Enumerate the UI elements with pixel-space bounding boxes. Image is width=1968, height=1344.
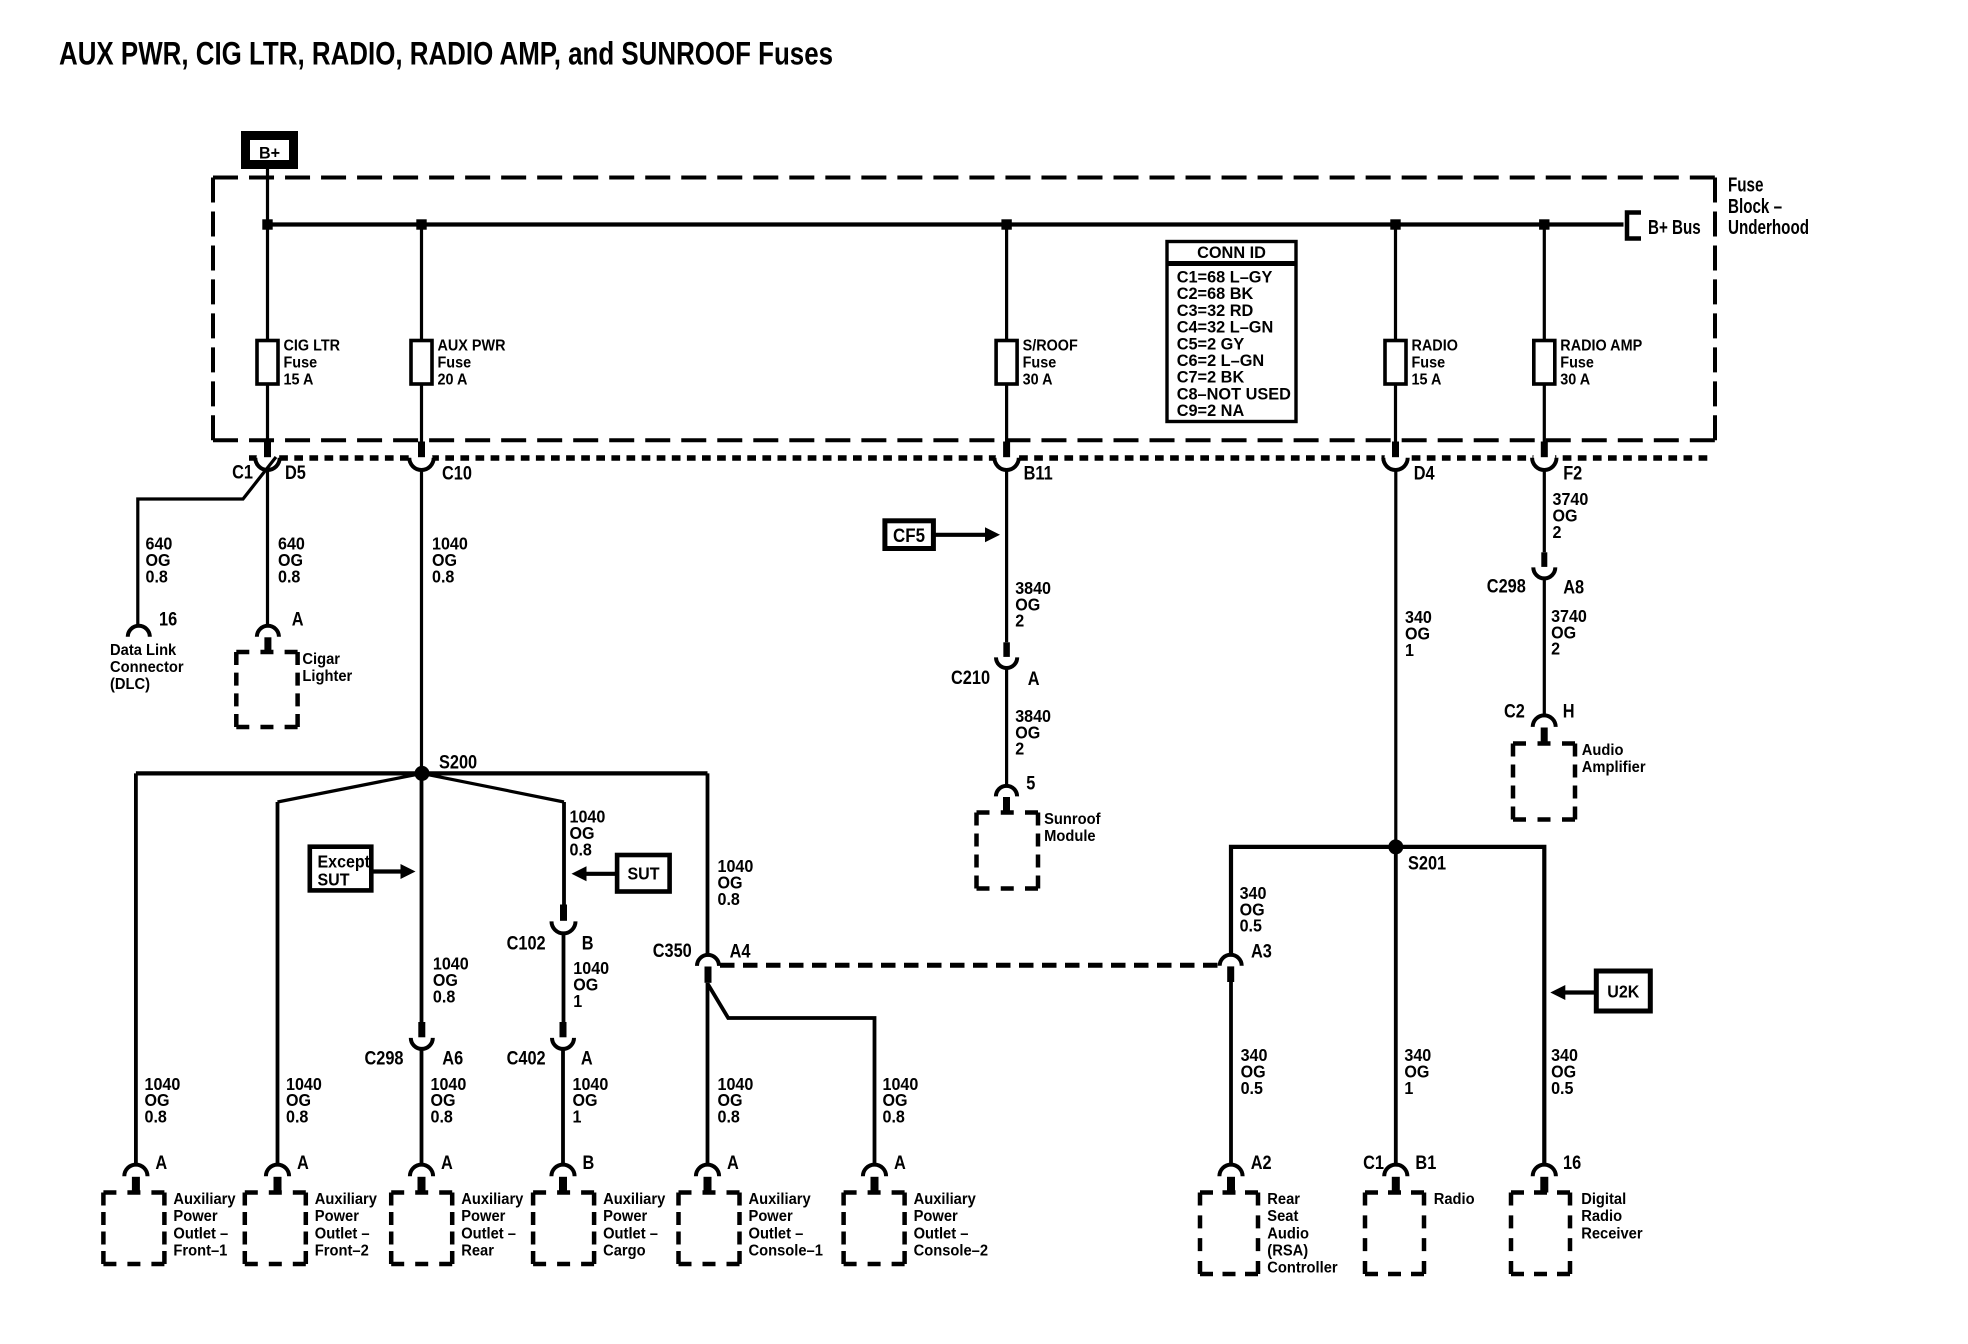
label A (C210) [1028, 668, 1040, 689]
wire RADIO fuse to connector [1394, 384, 1397, 442]
fuse block - underhood dashed box [213, 178, 1715, 441]
svg-text:Front–1: Front–1 [173, 1242, 227, 1259]
svg-text:Module: Module [1044, 828, 1096, 845]
connector at outlet Console&#8211;2 [863, 1165, 886, 1193]
svg-text:Sunroof: Sunroof [1044, 811, 1101, 828]
B+ bus end bracket [1627, 213, 1641, 239]
connector at cigar lighter [257, 626, 279, 653]
svg-text:A6: A6 [442, 1047, 463, 1068]
pin label A (Front&#8211;2) [297, 1152, 309, 1173]
wire label 1040 OG 0.8 at x=144.5 [145, 1074, 181, 1127]
pin label A (Console&#8211;1) [727, 1152, 739, 1173]
wire C350 to Console-1 outlet [706, 983, 710, 1166]
svg-text:30 A: 30 A [1023, 371, 1053, 389]
svg-text:Lighter: Lighter [302, 668, 352, 685]
audio amplifier box [1513, 744, 1575, 820]
wire D4 to S201 [1394, 470, 1397, 847]
wire D5 to cigar lighter [266, 470, 269, 626]
auxiliary power outlet Console&#8211;2 box [844, 1193, 905, 1265]
digital radio receiver box [1511, 1193, 1570, 1275]
svg-text:B: B [583, 1152, 595, 1173]
label B (C102) [582, 932, 594, 953]
svg-text:2: 2 [1553, 522, 1562, 542]
label H (C2) [1563, 701, 1575, 722]
fuse CIG LTR [257, 337, 340, 388]
wire label 340 OG 0.5 (below A3) [1241, 1045, 1268, 1098]
wire label 1040 OG 0.8 at x=882.5 [883, 1074, 919, 1127]
wire RADIO AMP fuse to connector [1543, 384, 1546, 442]
wire label 1040 OG 0.8 at x=286.0 [286, 1074, 322, 1127]
svg-text:Outlet –: Outlet – [461, 1225, 516, 1242]
wire AUX PWR fuse to connector [420, 384, 423, 442]
svg-text:Power: Power [461, 1208, 505, 1225]
wire C402 to Cargo outlet [561, 1049, 565, 1166]
label Auxiliary Power Outlet Console&#8211;2 [914, 1191, 988, 1260]
svg-text:C210: C210 [951, 667, 990, 688]
svg-text:Power: Power [914, 1208, 958, 1225]
wire label 640 OG 0.8 (cigar) [278, 534, 305, 587]
svg-text:F2: F2 [1563, 462, 1582, 483]
svg-text:Outlet –: Outlet – [914, 1225, 969, 1242]
svg-text:5: 5 [1026, 772, 1035, 793]
svg-text:20 A: 20 A [438, 371, 468, 389]
wire S200 diagonal to Front-2 [278, 773, 423, 802]
svg-text:A8: A8 [1563, 576, 1584, 597]
pin label 16 (DRR) [1563, 1152, 1581, 1173]
wire S200 horizontal bus [136, 771, 708, 775]
svg-text:S/ROOF: S/ROOF [1023, 337, 1078, 355]
wire label 340 OG 0.5 (above A3) [1240, 883, 1267, 936]
svg-text:0.5: 0.5 [1551, 1078, 1573, 1098]
svg-text:0.8: 0.8 [570, 840, 592, 860]
label Rear Seat Audio (RSA) Controller [1267, 1191, 1337, 1277]
svg-text:Underhood: Underhood [1728, 216, 1809, 239]
wire F2 to C298 A8 [1543, 470, 1546, 553]
wire C298 A8 to C2 [1543, 578, 1546, 716]
svg-text:A: A [581, 1047, 593, 1068]
auxiliary power outlet Rear box [391, 1193, 452, 1265]
label D5 [285, 462, 306, 483]
svg-text:1: 1 [573, 1107, 582, 1127]
svg-text:Fuse: Fuse [1728, 174, 1764, 197]
auxiliary power outlet Console&#8211;1 box [679, 1193, 740, 1265]
svg-text:0.8: 0.8 [278, 567, 300, 587]
pin label A2 [1251, 1152, 1272, 1173]
svg-text:Cigar: Cigar [302, 650, 340, 667]
svg-text:RADIO: RADIO [1412, 337, 1458, 355]
svg-text:Outlet –: Outlet – [315, 1225, 370, 1242]
svg-text:Seat: Seat [1267, 1208, 1298, 1225]
wire A3 to RSA controller [1229, 982, 1233, 1166]
label Data Link Connector (DLC) [110, 642, 184, 694]
wire label 1040 OG 0.8 at x=430.5 [431, 1074, 467, 1127]
svg-text:SUT: SUT [627, 864, 660, 884]
connector F2 at fuse block [1532, 442, 1556, 471]
wire label 1040 OG 1 (C402 above) [573, 958, 609, 1011]
connector at outlet Front&#8211;1 [124, 1165, 147, 1193]
svg-text:(DLC): (DLC) [110, 676, 150, 693]
svg-text:Auxiliary: Auxiliary [315, 1191, 378, 1208]
connector at outlet Console&#8211;1 [696, 1165, 719, 1193]
connector at RSA controller [1219, 1165, 1242, 1193]
svg-text:A: A [727, 1152, 739, 1173]
arrow CF5 [933, 527, 1000, 542]
svg-text:A: A [297, 1152, 309, 1173]
arrow Except SUT [371, 864, 415, 879]
fuse AUX PWR [411, 337, 506, 388]
connector at digital radio receiver [1533, 1165, 1556, 1193]
svg-text:15 A: 15 A [1412, 371, 1442, 389]
svg-text:A: A [441, 1152, 453, 1173]
wire label 3840 OG 2 (below C210) [1015, 706, 1051, 759]
label C298 (A8) [1487, 575, 1526, 596]
label C2 [1504, 701, 1525, 722]
pin label B1 [1415, 1152, 1436, 1173]
svg-text:CONN ID: CONN ID [1197, 243, 1266, 262]
wire S201 left branch [1231, 847, 1396, 957]
svg-text:C1: C1 [1363, 1152, 1384, 1173]
pin label 5 (sunroof) [1026, 772, 1035, 793]
label Audio Amplifier [1582, 741, 1646, 776]
svg-text:D4: D4 [1414, 462, 1435, 483]
label B+ Bus [1648, 216, 1701, 239]
wire branch C350 to Console-2 [708, 984, 875, 1166]
pin label 16 (DLC) [159, 608, 177, 629]
svg-text:0.8: 0.8 [146, 567, 168, 587]
svg-text:Amplifier: Amplifier [1582, 759, 1646, 776]
svg-text:0.8: 0.8 [718, 889, 740, 909]
wire C10 to S200 [420, 470, 423, 774]
svg-text:S200: S200 [439, 751, 477, 772]
svg-text:16: 16 [1563, 1152, 1581, 1173]
svg-text:C1: C1 [232, 461, 253, 482]
label F2 [1563, 462, 1582, 483]
svg-text:S201: S201 [1408, 852, 1446, 873]
svg-text:Outlet –: Outlet – [603, 1225, 658, 1242]
sunroof module box [977, 813, 1039, 889]
title text [59, 37, 833, 72]
wire CIG LTR fuse to connector [266, 384, 269, 442]
connector C2 pin H [1533, 715, 1556, 743]
wire C210 to sunroof module [1005, 668, 1008, 786]
label Fuse Block - Underhood [1728, 174, 1809, 239]
label A (C402) [581, 1047, 593, 1068]
svg-text:0.8: 0.8 [433, 987, 455, 1007]
wire bus to RADIO AMP fuse [1543, 225, 1546, 341]
wire Console column to C350 [706, 773, 710, 956]
svg-text:Power: Power [315, 1208, 359, 1225]
connector interface dotted line [249, 455, 1712, 461]
svg-text:A2: A2 [1251, 1152, 1272, 1173]
svg-text:Audio: Audio [1582, 741, 1624, 758]
pin label B (Cargo) [583, 1152, 595, 1173]
wire label 1040 OG 0.8 at x=717.5 [718, 1074, 754, 1127]
svg-text:B1: B1 [1415, 1152, 1436, 1173]
label Radio [1434, 1191, 1475, 1208]
svg-text:Fuse: Fuse [284, 354, 318, 372]
svg-text:0.5: 0.5 [1240, 916, 1262, 936]
svg-text:C9=2 NA: C9=2 NA [1177, 401, 1245, 420]
wire bus to AUX PWR fuse [420, 225, 423, 341]
svg-text:C298: C298 [364, 1047, 403, 1068]
callout box Except SUT [310, 847, 372, 891]
svg-text:Audio: Audio [1267, 1225, 1309, 1242]
svg-text:CIG LTR: CIG LTR [284, 337, 341, 355]
wire label 1040 OG 1 at x=572.5 [573, 1074, 609, 1127]
svg-text:Connector: Connector [110, 659, 184, 676]
label S201 [1408, 852, 1446, 873]
svg-text:SUT: SUT [318, 869, 351, 889]
svg-text:B11: B11 [1024, 462, 1053, 483]
wire label 640 OG 0.8 (DLC) [146, 534, 173, 587]
svg-text:Fuse: Fuse [438, 354, 472, 372]
B+ power feed box [246, 136, 294, 165]
CONN ID table [1167, 242, 1296, 422]
svg-text:2: 2 [1015, 739, 1024, 759]
svg-text:Fuse: Fuse [1560, 354, 1594, 372]
label Cigar Lighter [302, 650, 352, 685]
wire label 1040 OG 0.8 (above C298) [433, 954, 469, 1007]
connector at outlet Cargo [551, 1165, 574, 1193]
wire S200 diagonal to Cargo [422, 773, 564, 802]
svg-text:Receiver: Receiver [1581, 1225, 1642, 1242]
fuse RADIO AMP [1534, 337, 1642, 388]
rear seat audio controller box [1200, 1193, 1258, 1275]
svg-text:16: 16 [159, 608, 177, 629]
label Auxiliary Power Outlet Front&#8211;1 [173, 1191, 236, 1260]
svg-text:C402: C402 [507, 1047, 546, 1068]
label S200 [439, 751, 477, 772]
label Auxiliary Power Outlet Cargo [603, 1191, 666, 1260]
svg-text:A4: A4 [730, 940, 751, 961]
label C10 [442, 462, 472, 483]
wire label 340 OG 0.5 (DRR) [1551, 1045, 1578, 1098]
svg-text:C102: C102 [507, 932, 546, 953]
label C102 [507, 932, 546, 953]
splice S201 dot [1388, 839, 1403, 854]
wire S/ROOF fuse to connector [1005, 384, 1008, 442]
wire bus to CIG LTR fuse [266, 225, 269, 341]
connector C350 pin A4 [697, 955, 719, 983]
splice S200 dot [415, 766, 430, 781]
svg-text:Auxiliary: Auxiliary [914, 1191, 977, 1208]
wire C102 to C402 [562, 933, 566, 1022]
svg-text:A: A [1028, 668, 1040, 689]
label A6 [442, 1047, 463, 1068]
pin label A (Front&#8211;1) [155, 1152, 167, 1173]
svg-text:0.8: 0.8 [432, 567, 454, 587]
wire S201 right branch [1396, 847, 1545, 1166]
label A3 [1251, 940, 1272, 961]
svg-text:30 A: 30 A [1560, 371, 1590, 389]
svg-text:A: A [292, 608, 304, 629]
wire D5 diagonal to DLC branch [138, 457, 276, 626]
svg-text:1: 1 [1404, 1078, 1413, 1098]
svg-text:U2K: U2K [1607, 982, 1640, 1002]
svg-text:Front–2: Front–2 [315, 1242, 369, 1259]
wire bus to RADIO fuse [1394, 225, 1397, 341]
svg-text:Radio: Radio [1434, 1191, 1475, 1208]
svg-text:Block –: Block – [1728, 195, 1782, 218]
svg-text:2: 2 [1551, 639, 1560, 659]
wire label 3740 OG 2 (below C298) [1551, 606, 1587, 659]
svg-text:2: 2 [1015, 611, 1024, 631]
pin label A (Console&#8211;2) [894, 1152, 906, 1173]
svg-text:Rear: Rear [1267, 1191, 1300, 1208]
connector D5 at fuse block [255, 442, 279, 470]
svg-text:Cargo: Cargo [603, 1242, 646, 1259]
svg-text:0.8: 0.8 [431, 1107, 453, 1127]
svg-text:C350: C350 [653, 940, 692, 961]
svg-text:B+ Bus: B+ Bus [1648, 216, 1701, 239]
connector C10 at fuse block [409, 442, 433, 471]
svg-text:AUX PWR, CIG LTR, RADIO, RADIO: AUX PWR, CIG LTR, RADIO, RADIO AMP, and … [59, 37, 833, 72]
auxiliary power outlet Cargo box [533, 1193, 594, 1265]
wire label 3840 OG 2 (above C210) [1015, 578, 1051, 631]
svg-text:Auxiliary: Auxiliary [749, 1191, 812, 1208]
connector C102 pin B [552, 905, 576, 934]
wire C298 to Rear outlet [420, 1049, 424, 1166]
connector at outlet Front&#8211;2 [266, 1165, 289, 1193]
svg-text:Data Link: Data Link [110, 642, 177, 659]
connector at DLC [128, 626, 150, 637]
pin label C1 (radio) [1363, 1152, 1384, 1173]
svg-text:A: A [155, 1152, 167, 1173]
label C350 [653, 940, 692, 961]
svg-text:D5: D5 [285, 462, 306, 483]
svg-text:RADIO AMP: RADIO AMP [1560, 337, 1642, 355]
wire Front-1 column [134, 773, 138, 1165]
svg-text:Radio: Radio [1581, 1208, 1622, 1225]
svg-text:A: A [894, 1152, 906, 1173]
wire label 3740 OG 2 (F2) [1553, 489, 1589, 542]
svg-text:Power: Power [603, 1208, 647, 1225]
svg-text:(RSA): (RSA) [1267, 1242, 1308, 1259]
svg-text:Console–1: Console–1 [749, 1242, 823, 1259]
wire S201 to radio [1394, 847, 1398, 1166]
label D4 [1414, 462, 1435, 483]
svg-text:1: 1 [573, 991, 582, 1011]
label A8 [1563, 576, 1584, 597]
label C402 [507, 1047, 546, 1068]
connector at sunroof module [996, 786, 1017, 813]
label C210 [951, 667, 990, 688]
svg-text:Controller: Controller [1267, 1259, 1337, 1276]
callout box SUT [617, 855, 670, 892]
radio box [1365, 1193, 1424, 1275]
wire label 1040 OG 0.8 (SUT col) [570, 807, 606, 860]
svg-text:H: H [1563, 701, 1575, 722]
svg-text:C2: C2 [1504, 701, 1525, 722]
connector C210 pin A [996, 642, 1017, 668]
wire B11 to C210 [1005, 470, 1008, 643]
auxiliary power outlet Front&#8211;2 box [245, 1193, 306, 1265]
wire label 1040 OG 0.8 (C350 col) [718, 857, 754, 910]
connector C298 pin A6 [411, 1022, 433, 1049]
wire Rear column to C298 [420, 773, 424, 1022]
wire Cargo column to C102 [562, 802, 566, 905]
svg-text:Power: Power [749, 1208, 793, 1225]
wire label 340 OG 1 (radio) [1404, 1045, 1431, 1098]
svg-text:Auxiliary: Auxiliary [461, 1191, 524, 1208]
dashed wire C350 to A3 [720, 963, 1219, 968]
connector A3 [1220, 955, 1242, 982]
callout box U2K [1596, 971, 1650, 1011]
arrow U2K [1550, 985, 1596, 1000]
svg-text:0.5: 0.5 [1241, 1078, 1263, 1098]
B+ bus wire [268, 222, 1624, 226]
label Digital Radio Receiver [1581, 1191, 1642, 1243]
fuse S/ROOF [996, 337, 1078, 388]
label Sunroof Module [1044, 811, 1101, 846]
svg-text:0.8: 0.8 [718, 1107, 740, 1127]
cigar lighter box [236, 652, 297, 727]
svg-text:C10: C10 [442, 462, 472, 483]
label Auxiliary Power Outlet Rear [461, 1191, 524, 1260]
svg-text:AUX PWR: AUX PWR [438, 337, 506, 355]
connector C402 pin A [552, 1022, 574, 1049]
svg-text:Fuse: Fuse [1023, 354, 1057, 372]
svg-text:B: B [582, 932, 594, 953]
svg-text:Auxiliary: Auxiliary [603, 1191, 666, 1208]
svg-text:Digital: Digital [1581, 1191, 1626, 1208]
svg-text:Auxiliary: Auxiliary [173, 1191, 236, 1208]
callout box CF5 [885, 521, 934, 549]
svg-text:0.8: 0.8 [883, 1107, 905, 1127]
label C1 [232, 461, 253, 482]
svg-text:C298: C298 [1487, 575, 1526, 596]
wire B+ to bus [266, 169, 269, 225]
svg-text:CF5: CF5 [893, 525, 925, 546]
label Auxiliary Power Outlet Console&#8211;1 [749, 1191, 823, 1260]
svg-text:Rear: Rear [461, 1242, 494, 1259]
connector C298 pin A8 [1533, 552, 1555, 578]
connector at outlet Rear [410, 1165, 433, 1193]
svg-text:Power: Power [173, 1208, 217, 1225]
svg-text:Outlet –: Outlet – [749, 1225, 804, 1242]
connector at radio [1384, 1165, 1407, 1193]
label B11 [1024, 462, 1053, 483]
svg-text:1: 1 [1405, 640, 1414, 660]
wire label 340 OG 1 (D4) [1405, 607, 1432, 660]
wire label 1040 OG 0.8 (C10) [432, 534, 468, 587]
bus junction dots [262, 219, 1549, 229]
svg-text:Fuse: Fuse [1412, 354, 1446, 372]
connector D4 at fuse block [1383, 442, 1407, 470]
svg-text:0.8: 0.8 [145, 1107, 167, 1127]
svg-text:B+: B+ [259, 143, 280, 162]
wire bus to S/ROOF fuse [1005, 225, 1008, 341]
wire Front-2 column [276, 802, 280, 1166]
pin label A (cigar) [292, 608, 304, 629]
pin label A (Rear) [441, 1152, 453, 1173]
label Auxiliary Power Outlet Front&#8211;2 [315, 1191, 378, 1260]
arrow SUT [572, 866, 618, 881]
svg-text:Outlet –: Outlet – [173, 1225, 228, 1242]
svg-text:A3: A3 [1251, 940, 1272, 961]
auxiliary power outlet Front&#8211;1 box [103, 1193, 164, 1265]
label C298 (A6) [364, 1047, 403, 1068]
svg-text:0.8: 0.8 [286, 1107, 308, 1127]
connector B11 at fuse block [994, 442, 1018, 470]
label A4 [730, 940, 751, 961]
svg-text:Console–2: Console–2 [914, 1242, 988, 1259]
fuse RADIO [1385, 337, 1458, 388]
svg-text:15 A: 15 A [284, 371, 314, 389]
